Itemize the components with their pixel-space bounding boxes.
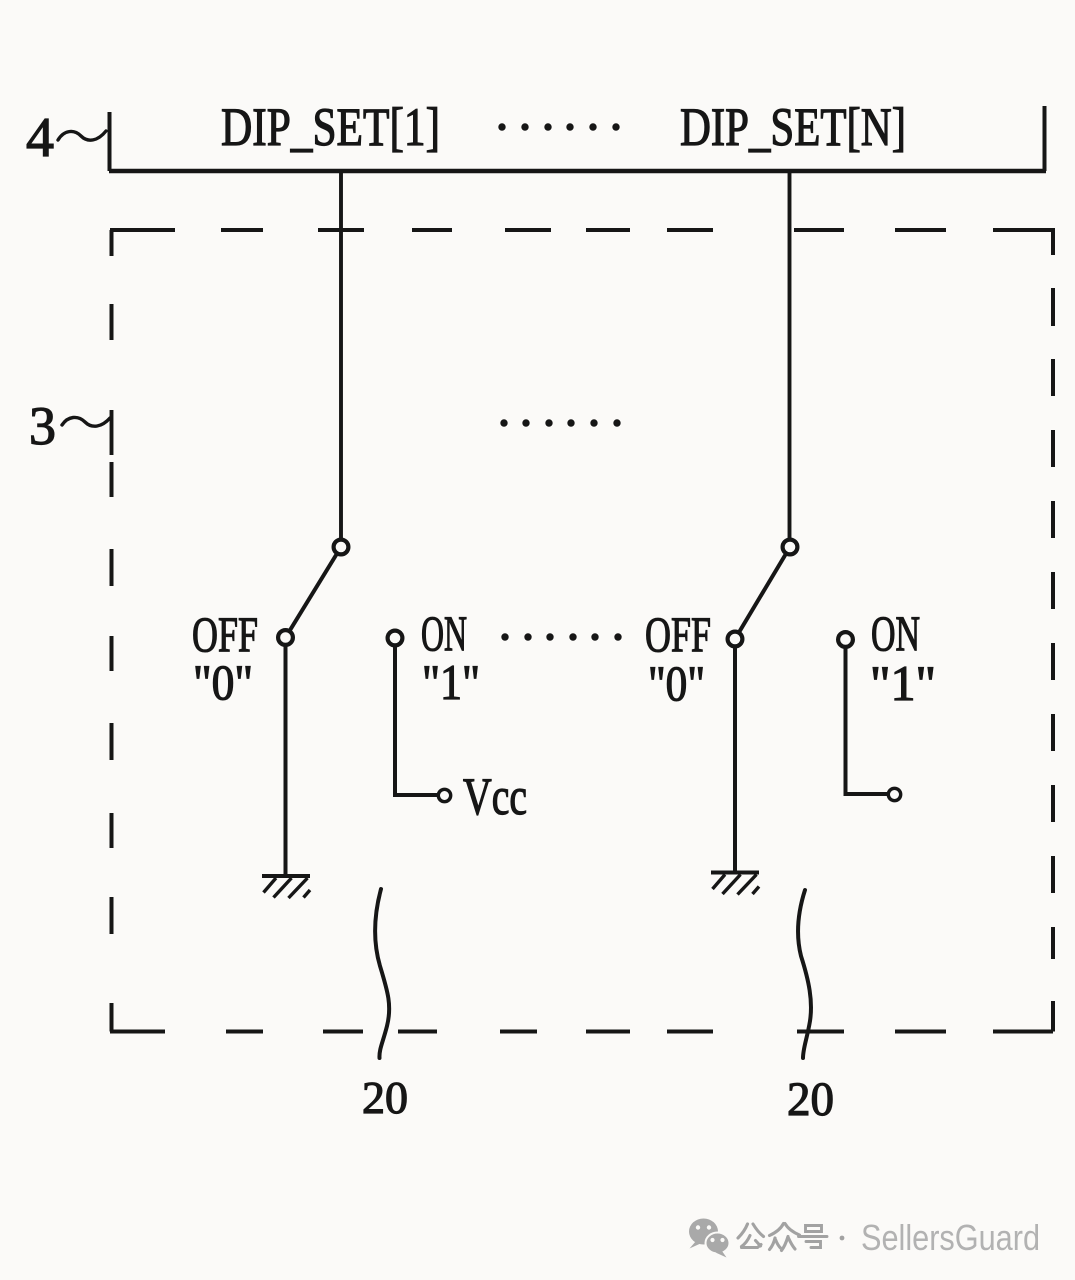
svg-text:"0": "0" xyxy=(648,655,705,711)
svg-text:"1": "1" xyxy=(870,655,936,711)
bus right end stub xyxy=(1043,106,1047,171)
switch 1: OFF throw contact circle xyxy=(278,630,293,645)
Vcc terminal circle xyxy=(438,789,450,801)
dashed box right side dashes xyxy=(1051,288,1055,959)
switch 2: wire ON contact to terminal xyxy=(846,648,888,795)
watermark text 公 xyxy=(738,1224,764,1248)
dashed box bottom-left corner xyxy=(110,1003,165,1032)
svg-text:20: 20 xyxy=(787,1073,834,1126)
watermark WeChat icon small bubble xyxy=(706,1233,730,1258)
svg-text:Vcc: Vcc xyxy=(463,768,527,826)
dashed box top-right corner xyxy=(993,228,1053,255)
watermark text 号 xyxy=(799,1226,828,1248)
switch 2: pole contact circle xyxy=(783,540,798,555)
dashed box (switch block 3) top-left corner xyxy=(110,230,175,256)
dots between bus labels xyxy=(498,123,619,130)
dashed box left side dashes xyxy=(110,304,114,934)
bus left end stub xyxy=(108,112,112,171)
dashed box bottom-right corner xyxy=(993,1001,1053,1032)
switch 2: wire from bus to pole xyxy=(788,171,792,538)
svg-text:4: 4 xyxy=(26,107,54,169)
tick on dashed border where leader lands xyxy=(110,410,114,455)
switch 1: wire ON contact to Vcc xyxy=(395,646,438,795)
dashed box bottom side dashes xyxy=(226,1030,946,1034)
switch 2: open terminal circle xyxy=(888,788,900,800)
switch 1: ground symbol xyxy=(262,876,310,898)
svg-text:DIP_SET[1]: DIP_SET[1] xyxy=(221,97,440,157)
switch 2: wire OFF contact to ground xyxy=(733,647,737,871)
svg-text:SellersGuard: SellersGuard xyxy=(861,1217,1040,1258)
svg-text:ON: ON xyxy=(421,605,467,661)
svg-text:"0": "0" xyxy=(193,654,253,710)
svg-text:3: 3 xyxy=(29,396,56,456)
break squiggle 1 xyxy=(375,889,389,1058)
switch 2: ground symbol xyxy=(711,873,759,895)
svg-text:DIP_SET[N]: DIP_SET[N] xyxy=(680,97,906,157)
leader tilde from 4 to bus xyxy=(58,131,106,140)
watermark WeChat icon big bubble xyxy=(689,1219,718,1249)
switch 1: ON throw contact circle xyxy=(388,631,403,646)
watermark text 众 xyxy=(770,1224,800,1251)
break squiggle 2 xyxy=(798,890,811,1058)
svg-text:"1": "1" xyxy=(422,654,480,710)
bus line (net DIP_SET bus) xyxy=(109,169,1046,174)
svg-text:20: 20 xyxy=(362,1072,408,1123)
switch 1: wire from bus to pole xyxy=(339,171,343,539)
leader tilde from 3 to dashed box xyxy=(62,417,110,426)
watermark separator dot xyxy=(840,1236,845,1241)
switch 2: ON throw contact circle xyxy=(838,632,853,647)
switch 2: OFF throw contact circle xyxy=(728,632,743,647)
switch 1: pole contact circle xyxy=(334,540,349,555)
svg-text:ON: ON xyxy=(871,605,920,661)
switch 1: wire OFF contact to ground xyxy=(284,646,288,875)
dots row between switch columns (upper) xyxy=(500,419,620,426)
dashed box top side dashes xyxy=(221,228,946,232)
dots row between switch columns (OFF/ON level) xyxy=(501,633,621,640)
svg-text:OFF: OFF xyxy=(645,606,711,662)
switch 1: lever arm xyxy=(286,547,342,638)
switch 2: lever arm xyxy=(735,547,790,639)
